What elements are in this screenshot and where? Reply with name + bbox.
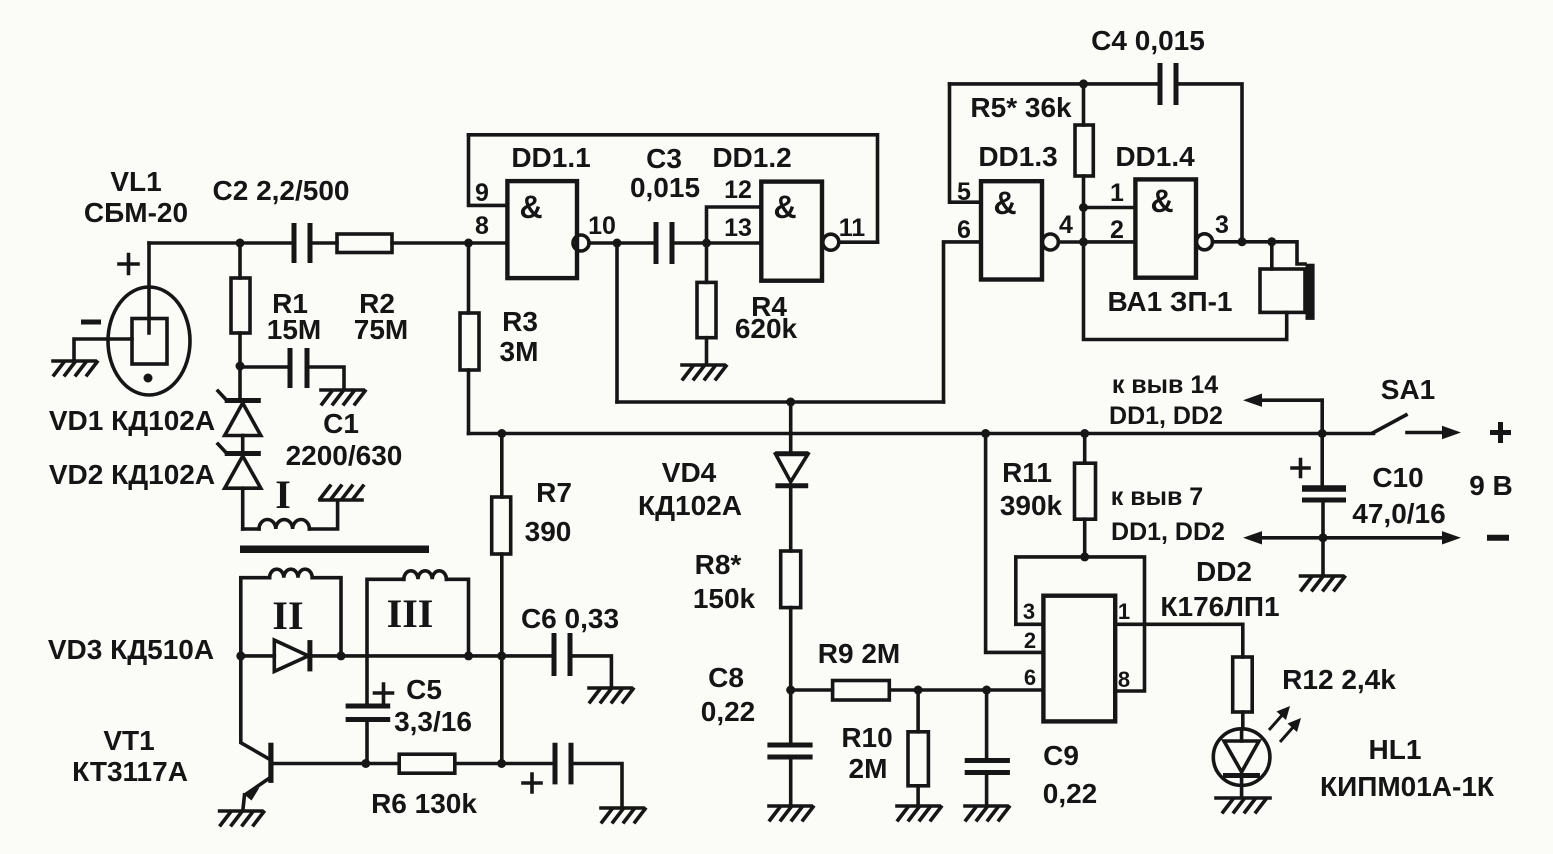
wire DD2 pin1 to R12 bbox=[1115, 624, 1243, 657]
transformer winding I bbox=[243, 502, 338, 529]
capacitor C7 bbox=[555, 743, 622, 806]
svg-text:DD1.4: DD1.4 bbox=[1115, 141, 1195, 172]
transformer winding III bbox=[367, 571, 469, 702]
svg-text:11: 11 bbox=[839, 214, 866, 242]
node DD1.1 pin8 junction bbox=[464, 239, 473, 248]
node R7 lead on rail bbox=[497, 651, 506, 660]
ground (C9) bbox=[965, 806, 1009, 820]
ground (R10) bbox=[897, 806, 941, 820]
resistor R6 bbox=[399, 754, 455, 773]
resistor R8 bbox=[781, 551, 801, 690]
svg-text:DD2: DD2 bbox=[1196, 556, 1252, 587]
wire N1 to DD1.4 pin 1 bbox=[1084, 206, 1136, 210]
transistor VT1 bbox=[241, 656, 274, 809]
wire DD1.1 pin 9 feedback left bbox=[469, 135, 508, 206]
svg-text:0,22: 0,22 bbox=[1043, 778, 1098, 809]
svg-text:II: II bbox=[272, 593, 303, 638]
svg-text:12: 12 bbox=[724, 176, 752, 204]
transformer core bbox=[240, 546, 429, 554]
svg-text:8: 8 bbox=[1118, 667, 1130, 692]
capacitor C5 bbox=[346, 706, 391, 764]
node BA1 top lead bbox=[1267, 237, 1276, 246]
tube VL1 cathode wire bbox=[74, 339, 132, 360]
node C9 junction bbox=[982, 686, 991, 695]
tube VL1 plus sign bbox=[119, 255, 138, 274]
resistor R4 bbox=[697, 243, 716, 363]
node R5/C4 top junction bbox=[1079, 79, 1088, 88]
svg-text:13: 13 bbox=[724, 214, 752, 242]
svg-text:2M: 2M bbox=[849, 753, 888, 784]
resistor R5 bbox=[1075, 84, 1093, 208]
wire top loop to C4 bbox=[950, 82, 1161, 86]
node R7 lead on base rail bbox=[497, 759, 506, 768]
svg-text:R12 2,4k: R12 2,4k bbox=[1282, 664, 1396, 695]
svg-text:R10: R10 bbox=[841, 722, 892, 753]
tube VL1 minus sign bbox=[81, 320, 101, 325]
svg-text:DD1.1: DD1.1 bbox=[511, 142, 590, 173]
node C4 on output3 wire bbox=[1238, 237, 1247, 246]
svg-text:&: & bbox=[773, 189, 796, 225]
svg-text:47,0/16: 47,0/16 bbox=[1352, 498, 1445, 529]
node C10 bottom on minus bus bbox=[1319, 533, 1328, 542]
svg-text:5: 5 bbox=[957, 178, 971, 206]
resistor R10 bbox=[908, 690, 928, 804]
svg-text:C4 0,015: C4 0,015 bbox=[1091, 25, 1205, 56]
wire DD1.3 output to node N2 bbox=[1058, 240, 1083, 244]
diode VD1 bbox=[218, 366, 261, 452]
svg-text:VD2 КД102А: VD2 КД102А bbox=[49, 459, 215, 490]
wire feedback top bbox=[469, 135, 878, 242]
svg-text:DD1.3: DD1.3 bbox=[978, 141, 1057, 172]
svg-text:VL1: VL1 bbox=[110, 166, 161, 197]
svg-text:к выв 14: к выв 14 bbox=[1112, 371, 1218, 399]
label plus terminal bbox=[1490, 422, 1511, 443]
svg-text:3: 3 bbox=[1023, 599, 1035, 624]
node winding II left / VT1 collector bbox=[236, 651, 245, 660]
capacitor C8 bbox=[767, 690, 812, 804]
wire R6 to C7 bbox=[455, 762, 555, 766]
label minus terminal bbox=[1487, 535, 1509, 541]
node R7 on bus bbox=[497, 429, 506, 438]
node N2 pin2 junction bbox=[1079, 237, 1088, 246]
svg-text:КИПМ01А-1К: КИПМ01А-1К bbox=[1320, 771, 1495, 802]
svg-text:3,3/16: 3,3/16 bbox=[394, 706, 472, 737]
svg-text:390k: 390k bbox=[1000, 490, 1063, 521]
resistor R12 bbox=[1233, 657, 1253, 729]
svg-text:2200/630: 2200/630 bbox=[286, 440, 403, 471]
node R10 junction bbox=[914, 686, 923, 695]
svg-text:К176ЛП1: К176ЛП1 bbox=[1160, 591, 1279, 622]
svg-text:6: 6 bbox=[1024, 665, 1036, 690]
chip DD2 bbox=[1043, 596, 1115, 722]
wire DD2 pin3 bracket bbox=[1016, 557, 1085, 624]
op-amp gate DD1.3 bbox=[981, 181, 1058, 279]
svg-text:390: 390 bbox=[525, 516, 572, 547]
tube VL1 anode wire bbox=[147, 243, 151, 333]
wire junction to DD1.2 pin 12 bbox=[707, 207, 762, 243]
tube VL1 body bbox=[108, 287, 190, 395]
svg-text:R8*: R8* bbox=[695, 549, 742, 580]
node C5 bottom on base rail bbox=[361, 759, 370, 768]
svg-text:VD4: VD4 bbox=[662, 457, 717, 488]
label C5 plus bbox=[375, 684, 393, 702]
svg-text:R9 2M: R9 2M bbox=[818, 638, 900, 669]
node N1 pin1 junction bbox=[1079, 203, 1088, 212]
node VD4 top on low rail bbox=[786, 398, 795, 407]
svg-text:VT1: VT1 bbox=[103, 725, 154, 756]
ground (C10) bbox=[1301, 576, 1345, 590]
node R1/C1/VD1 junction bbox=[236, 362, 245, 371]
wire C10 to ground bbox=[1321, 538, 1325, 574]
wire DD1.1 output to C3 bbox=[589, 241, 656, 245]
ground (tube cathode) bbox=[53, 361, 97, 375]
svg-text:III: III bbox=[387, 591, 434, 636]
ground (C1) bbox=[321, 390, 365, 404]
svg-text:к выв 7: к выв 7 bbox=[1111, 483, 1203, 511]
wire pin10 drop to low rail bbox=[615, 243, 619, 402]
svg-text:HL1: HL1 bbox=[1369, 734, 1422, 765]
label C10 plus bbox=[1292, 460, 1309, 477]
svg-text:R6 130k: R6 130k bbox=[371, 788, 477, 819]
wire VT1 base rail bbox=[274, 762, 400, 766]
svg-text:150k: 150k bbox=[693, 583, 756, 614]
op-amp gate DD1.1 bbox=[507, 181, 589, 278]
svg-text:C1: C1 bbox=[323, 408, 359, 439]
svg-text:0,22: 0,22 bbox=[701, 696, 756, 727]
wire N1 to N2 bbox=[1082, 208, 1086, 242]
svg-text:C10: C10 bbox=[1372, 462, 1423, 493]
wire R2 to DD1.1 pin 8 bbox=[392, 241, 507, 245]
svg-text:4: 4 bbox=[1059, 211, 1073, 239]
svg-text:9 В: 9 В bbox=[1469, 470, 1513, 501]
capacitor C10 bbox=[1302, 434, 1346, 538]
node DD2 pin2 riser on bus bbox=[981, 429, 990, 438]
wire DD1.2 output to feedback right bbox=[839, 240, 878, 244]
svg-text:C3: C3 bbox=[646, 143, 682, 174]
svg-text:VD3 КД510А: VD3 КД510А bbox=[48, 634, 214, 665]
capacitor C1 bbox=[240, 348, 344, 388]
svg-text:1: 1 bbox=[1110, 179, 1124, 207]
ground (R4) bbox=[682, 365, 726, 379]
switch SA1 bbox=[1374, 415, 1462, 439]
svg-text:C6 0,33: C6 0,33 bbox=[521, 603, 619, 634]
ground (winding I, inverted) bbox=[320, 486, 363, 500]
svg-text:620k: 620k bbox=[735, 313, 798, 344]
op-amp gate DD1.4 bbox=[1135, 179, 1212, 277]
ground (HL1) bbox=[1216, 798, 1270, 812]
wire top rail tube to C2 bbox=[149, 241, 294, 245]
resistor R11 bbox=[1075, 434, 1096, 557]
resistor R7 bbox=[492, 434, 511, 764]
svg-text:I: I bbox=[275, 472, 291, 517]
svg-text:C2 2,2/500: C2 2,2/500 bbox=[213, 175, 350, 206]
wire low rail pin10 to DD1.3 pin6 bbox=[617, 400, 944, 404]
svg-text:ВА1 ЗП-1: ВА1 ЗП-1 bbox=[1108, 286, 1233, 317]
resistor R9 bbox=[791, 681, 1044, 701]
svg-text:2: 2 bbox=[1110, 216, 1124, 244]
svg-text:SA1: SA1 bbox=[1381, 374, 1435, 405]
svg-text:3M: 3M bbox=[500, 336, 539, 367]
wire C3 to DD1.2 pin 13 bbox=[672, 241, 761, 245]
svg-text:C9: C9 bbox=[1043, 740, 1079, 771]
resistor R3 bbox=[460, 243, 479, 434]
svg-text:1: 1 bbox=[1118, 599, 1130, 624]
diode VD3 bbox=[241, 640, 554, 671]
node tube/R1/C2 junction bbox=[236, 239, 245, 248]
svg-text:&: & bbox=[519, 189, 542, 225]
svg-text:75M: 75M bbox=[354, 314, 408, 345]
node pin10 drop bbox=[613, 239, 622, 248]
node winding III right on rail bbox=[464, 651, 473, 660]
capacitor C3 bbox=[656, 222, 672, 264]
svg-text:9: 9 bbox=[475, 179, 489, 207]
resistor R1 bbox=[231, 243, 250, 366]
capacitor C6 bbox=[554, 633, 611, 686]
svg-text:R7: R7 bbox=[536, 477, 572, 508]
ground (C8) bbox=[769, 806, 813, 820]
wire C2 to R2 bbox=[310, 241, 337, 245]
svg-text:0,015: 0,015 bbox=[630, 172, 700, 203]
svg-text:R11: R11 bbox=[1002, 457, 1052, 488]
LED HL1 arrows bbox=[1269, 706, 1301, 742]
node C3/R4/pin12 junction bbox=[702, 239, 711, 248]
node SA1/C10 on bus bbox=[1318, 429, 1327, 438]
label C7 plus bbox=[523, 774, 541, 792]
svg-text:СБМ-20: СБМ-20 bbox=[84, 197, 188, 228]
node R8/C8/R9 junction bbox=[786, 686, 795, 695]
svg-text:10: 10 bbox=[588, 212, 616, 240]
LED HL1 bbox=[1213, 729, 1270, 796]
wire N2 down to BA1 bottom bbox=[1084, 242, 1287, 340]
transformer winding II bbox=[241, 569, 341, 655]
ground (C7) bbox=[601, 808, 645, 822]
wire plus bus bbox=[469, 432, 1374, 436]
svg-text:DD1, DD2: DD1, DD2 bbox=[1109, 402, 1223, 430]
svg-text:15M: 15M bbox=[267, 314, 321, 345]
svg-text:КД102А: КД102А bbox=[638, 490, 742, 521]
resistor R2 bbox=[337, 234, 392, 253]
wire DD1.3 pin5 riser bbox=[950, 84, 982, 202]
diode VD2 bbox=[218, 444, 261, 529]
capacitor C9 bbox=[965, 690, 1010, 804]
svg-text:КТ3117А: КТ3117А bbox=[72, 756, 188, 787]
capacitor C2 bbox=[294, 223, 310, 263]
svg-text:C5: C5 bbox=[406, 674, 442, 705]
node winding II right on rail bbox=[337, 651, 346, 660]
svg-text:8: 8 bbox=[475, 212, 489, 240]
ground (VT1 emitter) bbox=[220, 811, 264, 825]
ground (C6) bbox=[589, 688, 633, 702]
wire DD2 pin8 bracket bbox=[1085, 557, 1145, 691]
svg-text:&: & bbox=[1150, 183, 1173, 219]
capacitor C4 bbox=[1160, 63, 1176, 105]
diode VD4 bbox=[775, 402, 808, 551]
svg-text:&: & bbox=[993, 185, 1016, 221]
svg-text:R3: R3 bbox=[502, 306, 538, 337]
node R11 bottom bbox=[1080, 552, 1089, 561]
svg-text:6: 6 bbox=[957, 216, 971, 244]
svg-text:R5* 36k: R5* 36k bbox=[970, 92, 1072, 123]
wire k vyv 14 arrow bbox=[1243, 394, 1322, 434]
wire DD1.4 output to BA1 bbox=[1213, 240, 1272, 244]
speaker BA1 bbox=[1260, 242, 1315, 320]
svg-text:C8: C8 bbox=[708, 662, 744, 693]
wire minus bus with arrows bbox=[1243, 531, 1461, 544]
op-amp gate DD1.2 bbox=[761, 182, 839, 281]
svg-text:VD1 КД102А: VD1 КД102А bbox=[49, 405, 215, 436]
svg-text:DD1, DD2: DD1, DD2 bbox=[1111, 518, 1225, 546]
svg-text:3: 3 bbox=[1215, 211, 1229, 239]
svg-text:DD1.2: DD1.2 bbox=[712, 142, 791, 173]
wire DD1.3 pin6 drop bbox=[944, 242, 982, 402]
wire N2 to DD1.4 pin 2 bbox=[1084, 240, 1136, 244]
wire DD2 pin2 to bus bbox=[986, 434, 1044, 653]
svg-text:2: 2 bbox=[1024, 628, 1036, 653]
wire C4 right down to output3 bbox=[1176, 84, 1242, 242]
node R11 on bus bbox=[1080, 429, 1089, 438]
